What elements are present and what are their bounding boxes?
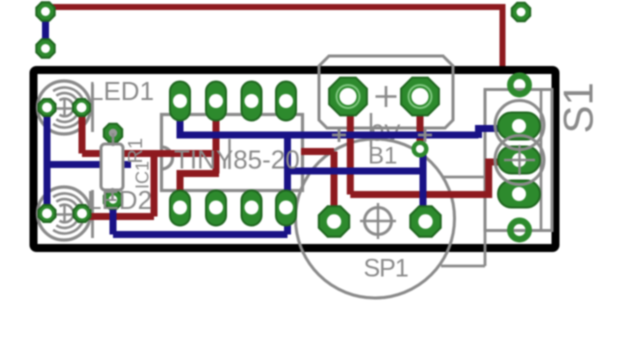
- pad SP1 left: [319, 206, 349, 236]
- speaker tab line upper: [443, 176, 485, 179]
- svg-text:SP1: SP1: [364, 255, 408, 283]
- pad ghost top-right: [512, 3, 530, 21]
- connector S1 left edge extension: [484, 231, 487, 267]
- silkscreen outlines (under copper): [38, 56, 553, 298]
- pad IC1 pin 2: [206, 191, 226, 226]
- mounting ring S1 bottom: [510, 221, 528, 239]
- resistor R1 body: [101, 144, 123, 190]
- wire ghost blue trace vertical: [42, 11, 49, 48]
- wire blue LED1 anode to LED2 anode: [44, 107, 51, 211]
- wire blue jog up into S1 top pad: [479, 129, 511, 139]
- battery holder divider line: [370, 113, 372, 147]
- wire red x=338 down to speaker pad: [331, 152, 338, 222]
- wire blue bottom horizontal y=232: [113, 231, 288, 238]
- resistor R1 lead lines: [111, 133, 114, 199]
- pad ghost top-left 1: [36, 2, 54, 20]
- speaker SP1 outline circle: [296, 139, 455, 298]
- wire blue R1 pad down: [110, 200, 117, 235]
- LED1 cathode chord line: [91, 84, 94, 132]
- wire blue via to speaker right pad: [420, 151, 427, 222]
- LED1 outline circle: [38, 81, 91, 134]
- LED1 plus mark: [56, 100, 73, 117]
- pad LED1 anode: [39, 99, 56, 116]
- wire red IC pad2 vertical: [213, 100, 220, 174]
- pad IC1 pin 4: [276, 191, 296, 226]
- via at battery-right net: [414, 143, 427, 156]
- pad IC1 pin 6: [242, 82, 262, 121]
- wire red vertical x=154: [151, 154, 158, 217]
- pad IC1 pin 8: [170, 82, 190, 121]
- svg-text:B1: B1: [368, 143, 397, 170]
- wire red battery left pad down: [347, 97, 354, 195]
- speaker tab line lower: [441, 265, 485, 268]
- connector S1 outline box: [485, 90, 552, 231]
- wire red long horizontal y=193.5: [350, 191, 488, 198]
- battery terminal plus mark right: [418, 128, 432, 142]
- svg-text:TINY85-20: TINY85-20: [174, 145, 300, 175]
- connector S1 circle top: [495, 101, 544, 150]
- svg-text:S1: S1: [555, 82, 602, 133]
- pad IC1 pin 5: [276, 82, 296, 121]
- pad LED2 cathode: [74, 205, 91, 222]
- silk line segment near IC (unidentified footprint line): [228, 139, 230, 169]
- pad SP1 right: [410, 206, 440, 236]
- pad IC1 pin 3: [242, 191, 262, 226]
- wire red up at x=489 to S1 middle pad: [489, 162, 510, 198]
- LED1 inner arcs: [60, 99, 74, 117]
- pad ghost top-left 2: [36, 39, 54, 57]
- IC1 pin-1 notch: [162, 147, 173, 169]
- LED2 cathode chord line: [91, 190, 94, 238]
- battery terminal plus mark left: [332, 128, 346, 142]
- S1 crosshair cross: [504, 145, 535, 175]
- wire red stub at IC right edge: [301, 148, 334, 155]
- wire red LED2 cathode to x=154: [82, 213, 154, 220]
- mounting ring S1 top: [510, 76, 528, 94]
- LED2 plus mark: [56, 206, 73, 223]
- svg-text:LED1: LED1: [89, 76, 154, 106]
- pad S1 pin 2: [498, 147, 540, 174]
- pad S1 pin 1: [498, 113, 540, 140]
- pad IC1 pin 7: [206, 82, 226, 121]
- pad R1 bottom: [104, 190, 122, 208]
- pad R1 top: [104, 124, 122, 142]
- svg-text:R1: R1: [125, 138, 147, 164]
- wire blue IC pad1 stub: [177, 107, 184, 135]
- pad LED1 cathode: [73, 99, 90, 116]
- pad S1 pin 3: [498, 181, 540, 208]
- battery holder B1 outline: [319, 56, 453, 128]
- wire blue vertical x=287: [284, 135, 291, 235]
- IC1 DIP-8 outline box: [162, 115, 303, 191]
- wire blue long horizontal y=138: [177, 132, 479, 139]
- SP1 crosshair: [360, 203, 396, 239]
- wire red battery right pad to via: [417, 97, 424, 146]
- connector S1 inner vertical line: [540, 90, 543, 231]
- wire red LED1 cathode down: [79, 107, 86, 154]
- connector S1 circle bottom / crosshair: [495, 136, 544, 185]
- pad B1 negative (right): [401, 78, 439, 116]
- LED2 outline circle: [38, 187, 91, 240]
- wire blue horizontal y=173: [288, 168, 424, 175]
- pad LED2 anode: [39, 205, 56, 222]
- svg-text:IC1: IC1: [133, 161, 153, 189]
- pad B1 positive (left): [329, 78, 367, 116]
- battery center plus mark: [376, 86, 397, 107]
- LED2 inner arcs: [60, 205, 74, 223]
- wire ghost red trace vertical at x=502: [500, 4, 506, 70]
- wire ghost red trace horizontal net VCC: [46, 4, 503, 10]
- wire blue branch to R1: [47, 161, 131, 168]
- pad IC1 pin 1: [170, 191, 190, 226]
- wire red horizontal y=152: [82, 150, 216, 157]
- wire red jog to IC pin5: [180, 174, 219, 201]
